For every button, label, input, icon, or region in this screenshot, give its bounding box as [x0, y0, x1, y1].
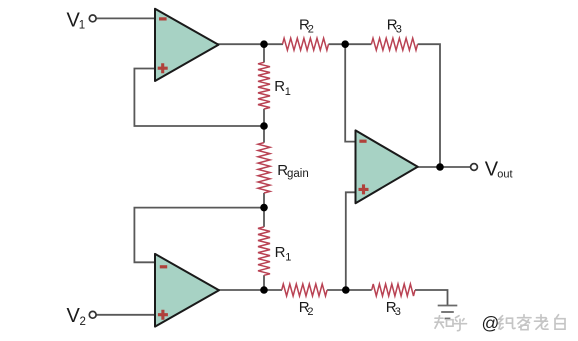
resistor R2 (bottom)	[282, 284, 327, 296]
svg-text:V: V	[67, 305, 81, 327]
svg-text:2: 2	[307, 306, 313, 318]
wire U2 output to node D	[218, 289, 282, 291]
junction dot node A (R1-Rgain junction)	[260, 122, 268, 130]
svg-text:R: R	[274, 78, 285, 95]
svg-text:3: 3	[396, 24, 402, 36]
junction dot node G (R2-R3 bottom junction)	[342, 286, 350, 294]
watermark "知乎 @纪客老白" (Zhihu watermark, approximated)	[435, 315, 565, 331]
wire node B to R2 junction / node E	[329, 43, 372, 45]
svg-text:out: out	[497, 169, 512, 181]
wire bottom R3 to ground corner	[415, 290, 448, 305]
wire top R3 to feedback corner down to output node F	[418, 44, 440, 167]
terminal V2 input	[89, 311, 96, 318]
svg-text:1: 1	[285, 86, 291, 98]
svg-text:3: 3	[395, 306, 401, 318]
wire V2 terminal to U2 non-inverting input	[96, 314, 155, 316]
junction dot node B (U1 out / R1 / R2 top)	[260, 40, 268, 48]
resistor R1 (upper, vertical)	[258, 62, 270, 109]
op-amp U3 (right)	[356, 130, 418, 203]
junction dot node F (U3 output junction)	[436, 163, 444, 171]
svg-text:2: 2	[80, 316, 86, 328]
svg-text:2: 2	[308, 24, 314, 36]
svg-text:1: 1	[79, 19, 85, 31]
wire node A stub to Rgain	[263, 126, 265, 143]
wire lower R1 to node D	[263, 275, 265, 290]
svg-text:R: R	[275, 244, 286, 261]
wire R1 to node A	[263, 109, 265, 126]
ground symbol	[438, 306, 458, 319]
resistor Rgain (vertical)	[258, 143, 270, 193]
wire U1 non-inverting input feedback to node A	[134, 69, 264, 127]
wire node C stub to lower R1	[263, 208, 265, 227]
op-amp U1 (top left)	[155, 9, 219, 81]
wire node B stub down to R1	[263, 44, 265, 62]
wire U3 output to node F and Vout terminal	[418, 166, 471, 168]
resistor R1 (lower, vertical)	[258, 227, 270, 275]
junction dot node D (U2 out / R1 / R2 bottom)	[260, 286, 268, 294]
junction dot node C (Rgain-R1 junction)	[260, 204, 268, 212]
wire node G up to U3 non-inverting input	[346, 192, 356, 290]
wire V1 terminal to op-amp U1 inverting input	[96, 17, 155, 19]
resistor R3 (bottom)	[372, 284, 415, 296]
terminal V1 input	[89, 15, 96, 22]
wire U1 output to node B	[218, 43, 284, 45]
resistor R2 (top)	[283, 38, 329, 50]
op-amp U2 (bottom left)	[155, 254, 219, 327]
terminal Vout output	[471, 164, 478, 171]
wire Rgain to node C	[263, 193, 265, 208]
junction dot node E (R2-R3 top junction)	[341, 40, 349, 48]
wire node C feedback to U2 inverting input	[134, 208, 264, 263]
resistor R3 (top)	[371, 38, 417, 50]
wire node D to bottom R2/R3 junction node G	[327, 289, 346, 291]
svg-text:gain: gain	[287, 168, 309, 180]
svg-text:@: @	[482, 313, 500, 333]
wire node G to bottom R3	[346, 289, 372, 291]
wire node E down to U3 inverting input	[345, 44, 355, 141]
svg-text:1: 1	[285, 252, 291, 264]
